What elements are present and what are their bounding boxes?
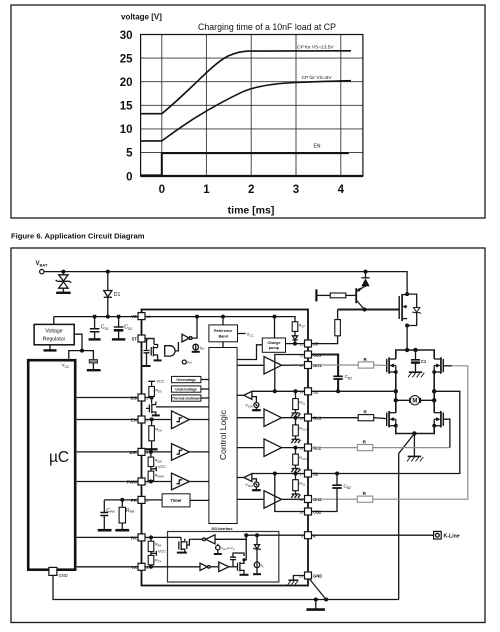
wire K row [246,534,304,536]
wire CP gate line (thick) [338,308,400,310]
wire TX into interface [145,566,200,568]
resistor RPWM pull-up [148,471,154,481]
svg-text:20: 20 [120,77,133,89]
junction M5 drain [405,292,409,296]
resistor REN pull-down [149,420,155,449]
svg-text:ISO-Interface: ISO-Interface [211,527,232,531]
svg-text:EN: EN [131,418,137,423]
reference band block [209,325,238,342]
svg-text:25: 25 [120,53,133,65]
ground bar of RX MOSFET [177,552,187,554]
curve CP for VS=8V [141,81,351,141]
wire VCC from regulator [69,334,94,359]
svg-text:3: 3 [293,184,299,196]
wire VS to reference band [222,317,224,325]
junction RGH2 [294,446,298,450]
wire K-line [312,534,434,536]
junction K net comparator [244,533,248,537]
ground hatched C1 [408,372,424,377]
wire bridge top rail [396,350,434,359]
svg-text:K-Line: K-Line [444,533,460,539]
junction motor left [394,398,398,402]
svg-text:Reference: Reference [214,329,232,333]
svg-text:VCC: VCC [158,465,166,469]
junction Q4 source-bulk [432,424,436,428]
wire GL1 [312,417,387,420]
transistor Q1 high-side left [387,357,396,373]
monitor block undervoltage [172,386,201,392]
capacitor CS2 (bulk) [114,317,124,339]
wire M5 to bridge rail [406,326,408,351]
wire VS input row [54,316,138,318]
capacitor CPR [100,500,108,530]
wire uC-TX [77,566,138,568]
wire uC-EN [77,419,138,421]
ground bar of VS2H [252,489,261,491]
junction CS1 [93,315,97,319]
junction D1 bottom [106,315,110,319]
wire GH1 driver output [282,364,305,366]
svg-text:time [ms]: time [ms] [228,205,275,217]
resistor RDG pull-up [148,381,155,397]
comparator VS2H [244,474,252,482]
wire into voltage regulator [53,317,55,325]
wire receiver input from K [215,535,246,539]
transistor Q2 high-side right [434,357,443,373]
svg-text:C1: C1 [421,359,427,364]
junction RS1 [294,389,298,393]
resistor RCP internal [292,322,298,336]
resistor R gate GL1 [358,415,374,421]
ground bar of RPR [115,529,129,532]
ground bar of K MOSFET [240,574,249,576]
junction Q1 source-bulk [394,370,398,374]
pin 13 CB1 [305,351,312,358]
resistor RTX [148,555,154,566]
pin 14 S1 [305,388,312,395]
ground bar of CPR [98,529,112,532]
pin 16 CB2 [305,508,312,515]
svg-text:Band: Band [218,334,228,338]
diode CP internal [292,336,297,340]
wire uC-PWM [77,481,138,483]
timer block [162,494,190,507]
NOT gate TX [200,563,207,570]
buffer TX driver [219,562,229,572]
capacitor CB2 [312,474,342,512]
pin 4 DIR [138,448,145,455]
ground bar of REN [146,448,158,450]
IC outline [142,310,309,586]
resistor RPR [119,500,125,530]
wire S2 pin row internal [252,473,305,475]
capacitor C1 [411,350,420,372]
capacitor on ST [144,339,155,366]
svg-text:GND: GND [313,574,322,579]
curve CP for VS=13.5V [141,51,351,114]
threshold source VBAT/2 [216,545,220,549]
gate driver GL1 [264,409,282,427]
resistor RS2 pull-down [293,474,299,494]
wire GL2 driver output [282,447,305,449]
chart gridlines horizontal [141,35,363,153]
wire DG pin [145,397,152,399]
terminal GND of uC [49,567,57,575]
svg-text:1: 1 [203,184,210,196]
svg-text:ST: ST [131,337,137,342]
junction TX pullup [149,565,153,569]
chart plot border / axes [141,35,363,177]
svg-text:VS: VS [131,314,137,319]
wire CB2 internal feed [275,474,305,512]
wire NOT to VS rail [192,317,197,339]
VCC tap between RRX RTX [151,551,156,556]
capacitor miller K [230,553,244,567]
junction motor right [432,398,436,402]
transistor ST MOSFET [151,345,157,361]
junction CP internal [293,342,297,346]
wire GND down to ground rail [53,575,399,599]
svg-text:µC: µC [49,449,69,466]
svg-text:PR: PR [131,498,137,503]
schmitt trigger DIR [172,444,190,461]
transistor DG MOSFET [146,398,209,416]
schmitt trigger EN [172,411,190,429]
svg-text:voltage [V]: voltage [V] [121,13,162,22]
svg-text:TX: TX [131,565,137,570]
pin 9 K [305,532,312,539]
svg-text:Overvoltage: Overvoltage [176,378,196,382]
junction CB2 top [335,472,339,476]
wire timer to control logic [190,499,209,501]
svg-text:2: 2 [248,184,254,196]
wire bridge bottom rail [396,426,434,434]
ground bar of ST MOSFET [154,359,162,361]
resistor R gate GH1 [358,362,374,368]
wire GH2 driver output [282,498,305,500]
pin 8 TX [138,563,145,570]
chart outer frame [11,5,485,218]
pin 1 ST [138,335,145,342]
wire control logic to GH2 driver [237,498,264,500]
junction collector node [363,308,367,312]
junction bridge ground [412,431,416,435]
wire internal VS rail [145,317,295,322]
svg-text:0: 0 [126,171,132,183]
resistor RGL1 pull-down [293,418,299,439]
ground bar of VS1H [252,409,261,411]
junction Q3 source-bulk [394,424,398,428]
svg-text:Voltage: Voltage [45,329,62,335]
svg-text:CP for VS=8V: CP for VS=8V [302,75,333,81]
charge pump block [262,338,285,352]
svg-text:10: 10 [120,124,133,136]
ground bar of IDis [192,351,200,353]
ground bar of CS1 [89,338,101,340]
ground hatched RS2 [291,494,300,498]
junction VBAT-D2 (clamp diode top) [364,270,368,274]
svg-text:Control Logic: Control Logic [218,409,228,460]
wire GL2 gray [312,447,450,449]
junction VCC [80,349,84,353]
svg-text:0: 0 [159,184,165,196]
reference bubble near ST [182,360,186,364]
AND gate ST [165,346,175,356]
y axis tick numbers [120,30,133,184]
svg-text:Charging time of a 10nF load a: Charging time of a 10nF load at CP [198,22,336,32]
comparator VS1H [244,391,252,399]
pin 19 GL2 [305,444,312,451]
wire bridge ground stem [413,434,415,457]
svg-text:CP for VS=13.5V: CP for VS=13.5V [297,45,334,51]
pin 2 DG [138,394,145,401]
svg-text:Timer: Timer [170,498,182,503]
ground bar of threshold [214,553,222,555]
pin 11 CP [305,340,312,347]
wire right bridge node [433,372,435,413]
capacitor CS1 [90,317,100,339]
control logic block [209,348,237,524]
x axis tick numbers [159,184,345,196]
junction DG [150,396,154,400]
chart gridlines vertical [162,35,341,177]
diode D2 [361,272,369,287]
junction RS2 [294,472,298,476]
pin 12 GH1 [305,362,312,369]
pin 5 PWM [138,478,145,485]
wire GL2 to Q4 gate [443,419,450,447]
svg-text:Thermal shutdown: Thermal shutdown [172,397,200,401]
wire DIR pin to trigger [145,451,172,453]
wire ST pin [145,339,154,345]
ground bar of CVCC [87,369,101,371]
NOT gate RX receiver [206,535,215,544]
wire control logic to GL2 driver [237,447,264,449]
diode D1 [104,272,112,317]
pin 7 RX [138,534,145,541]
wire AND to NOT [175,342,178,351]
wire PWM pin to trigger [145,481,172,483]
wire GH2 gray [312,366,468,499]
svg-text:M: M [412,399,417,405]
wire base [316,294,330,296]
ground bar of TVS [56,292,70,294]
resistor R gate GH2 [357,496,373,502]
zener and current source on K [255,533,259,537]
wire EN pin to trigger [145,419,172,421]
svg-text:D1: D1 [114,292,121,298]
junction C1 top [413,348,417,352]
wire power ground return diagonal [399,434,415,600]
gate driver GH2 [264,491,282,509]
microcontroller box [28,360,75,570]
svg-text:EN: EN [314,144,321,150]
current source IDis [193,344,199,350]
junction DIR [149,450,153,454]
gate driver GH1 [264,357,282,375]
wire RX into interface [145,536,181,538]
transistor Q5 PNP [356,286,365,310]
junction supply [405,348,409,352]
wire uC-RX [77,536,138,538]
terminal VBAT [40,269,44,273]
junction VS rail C [273,315,277,319]
pin 10 VS [138,313,145,320]
wire VCC output of reference [238,333,246,335]
junction CB1 bottom [336,389,340,393]
resistor RCP external [335,320,341,336]
resistor R gate GL2 [357,445,373,451]
wire charge pump output to pin 11 [286,343,305,345]
schmitt trigger PWM [172,473,190,490]
TVS suppressor Z1 [56,272,72,293]
junction RX pullup [149,535,153,539]
junction Q2 source-bulk [432,370,436,374]
wire control logic to GH1 driver [237,364,264,366]
IC internal K-line interface box [168,532,279,583]
source VS1H [252,397,257,403]
pin 3 EN [138,416,145,423]
ground hatched RGL1 [291,439,300,443]
motor M [396,396,434,405]
resistor RGH2 pull-down [293,448,299,469]
svg-text:Regulator: Regulator [43,336,66,342]
wire uC-DG [77,397,138,399]
svg-text:Ref: Ref [187,361,192,365]
svg-text:Undervoltage: Undervoltage [175,388,197,392]
wire S2 external [312,391,460,473]
svg-text:GND: GND [59,573,68,578]
pin 20 GND [305,572,312,579]
transistor Q3 low-side left [387,411,396,427]
junction EN [150,418,154,422]
wire GL1 driver output [282,417,305,419]
svg-text:RX: RX [131,536,137,541]
junction VBAT-D1 [106,270,110,274]
wire charge pump to control logic [237,345,262,360]
junction PR [120,498,124,502]
svg-text:PWM: PWM [127,480,138,485]
ground bar of CS2 [112,338,125,340]
svg-text:15: 15 [120,101,133,113]
transistor M5 reverse protection MOSFET [399,294,407,321]
ground hatched GND pin [288,580,299,584]
junction VS rail B [221,315,225,319]
wire GND pin diagonal to ground rail [310,579,327,600]
svg-text:30: 30 [120,30,133,42]
svg-text:VBAT: VBAT [36,261,48,268]
ground hatched RS1 [291,413,300,417]
pin 17 S2 [305,470,312,477]
transistor K output MOSFET [238,559,245,574]
junction CS2 [117,315,121,319]
gate driver GL2 [264,439,282,457]
junction VS rail A [195,315,199,319]
NOT gate ST [182,334,189,342]
ground bar of DG MOSFET [152,414,160,416]
wire VBAT rail [44,272,407,294]
wire control logic to GL1 driver [237,417,264,419]
junction driver ref S2 [273,472,277,476]
svg-text:4: 4 [338,184,345,196]
svg-text:VCC: VCC [158,550,166,554]
junction M5 source [405,324,409,328]
wire VS rail to charge pump [274,317,276,338]
terminal K-Line [434,531,442,539]
svg-text:Figure 6. Application Circuit: Figure 6. Application Circuit Diagram [11,232,145,241]
ground hatched bridge [407,456,423,461]
junction VBAT-TVS [61,270,65,274]
wire S1 pin row internal [252,390,305,392]
source VS2H [252,479,257,482]
EN trace [141,153,349,175]
wire PR pin to timer [145,499,162,501]
junction GND pin link [324,598,328,602]
monitor block overvoltage [172,376,201,382]
ground hatched RGH2 [291,469,300,473]
wire GND pin to local ground [293,576,304,580]
capacitor CB1 [312,355,343,392]
wire uC-DIR [77,451,138,453]
junction driver ref S1 [273,389,277,393]
junction board ground [314,598,318,602]
terminator bar at base resistor [315,289,317,301]
pin 18 GH2 [305,496,312,503]
svg-text:5: 5 [126,148,133,160]
resistor RS1 pull-down [293,391,299,413]
junction K drain [242,558,245,561]
ground of voltage regulator [49,345,51,350]
junction S1 node [394,389,398,393]
wire reference band to control logic [222,342,224,348]
junction PWM [149,480,153,484]
wire left bridge node [395,372,397,413]
voltage regulator block [34,324,74,344]
wire CP pin external [312,336,338,344]
zener D3 across M5 [407,294,421,325]
junction S2 node [432,389,436,393]
svg-text:DG: DG [131,396,137,401]
capacitor CVCC [89,360,97,363]
wire PR row [104,499,138,501]
svg-text:VCC: VCC [156,379,164,383]
resistor base R [330,293,346,298]
wire S1 external [312,390,396,392]
ground bar of IK [253,573,261,575]
wire CB1 internal feed [275,355,305,392]
svg-text:Charge: Charge [267,341,280,345]
transistor Q4 low-side right [434,411,443,427]
transistor RX MOSFET [179,537,192,552]
current source IK [254,562,260,568]
resistor RDIR pull-up [148,452,154,471]
svg-text:DIR: DIR [130,450,137,455]
pin 15 GL1 [305,414,312,421]
pin 6 PR [138,496,145,503]
wire GH1 gray [312,364,387,367]
monitor block thermal shutdown [172,395,201,401]
board ground symbol [315,600,317,609]
resistor RRX [148,537,154,555]
ground bar of ST cap [143,365,151,367]
VCC tap between RDIR RPWM [151,466,156,471]
junction RGL1 [294,416,298,420]
svg-text:pump: pump [269,346,280,350]
wire Q2 gate stub [443,365,452,367]
